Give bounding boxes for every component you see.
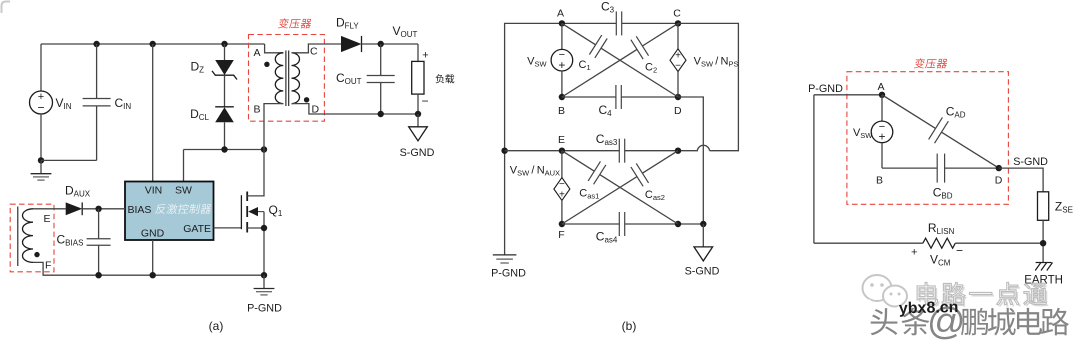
node F-row drop junction: [700, 221, 706, 227]
svg-text:ybx8.cn: ybx8.cn: [899, 299, 959, 318]
wire VSW bottom lead: [561, 71, 563, 97]
capacitor C4: [615, 85, 617, 109]
wire ZSE bottom lead: [1042, 220, 1044, 262]
svg-text:B: B: [253, 104, 260, 116]
load resistor box: [412, 61, 424, 94]
wire RLISN to earth rail: [955, 242, 1043, 244]
transistor Q1 channel segments: [246, 192, 248, 233]
watermark wechat icon: [863, 275, 908, 311]
aux core line: [17, 207, 19, 267]
zener DZ: [215, 60, 234, 75]
svg-text:−: −: [956, 244, 963, 258]
node F-row right junction: [675, 221, 681, 227]
node load bottom junction: [415, 111, 421, 117]
ground P-GND figure b: [493, 254, 517, 256]
wire VSW to B lead: [881, 143, 883, 169]
source VSW figure b: [551, 49, 573, 71]
ground EARTH symbol: [1035, 263, 1052, 271]
svg-text:+: +: [558, 58, 565, 72]
node Q1 source junction: [261, 225, 267, 231]
svg-text:F: F: [558, 229, 564, 241]
transformer T1 boundary box: [249, 35, 325, 122]
svg-text:B: B: [876, 175, 883, 187]
resistor RLISN: [923, 238, 955, 248]
ground input earth symbol: [40, 160, 42, 173]
wire C diamond top lead: [677, 23, 679, 48]
wire NAUX diamond top lead: [561, 151, 563, 178]
node A figure c: [879, 92, 885, 98]
wire DZ top lead: [224, 44, 226, 60]
capacitor C3: [615, 11, 617, 35]
watermark dianlu-yidiantong text: [917, 282, 1048, 307]
capacitor CIN: [96, 44, 98, 99]
wire left rail figure b: [505, 23, 562, 254]
winding auxiliary: [22, 209, 33, 263]
svg-text:S-GND: S-GND: [685, 266, 720, 278]
watermark toutiao text (tou-tiao at pengcheng-dianlu): [871, 301, 1069, 342]
svg-text:S-GND: S-GND: [400, 147, 435, 159]
core lines: [285, 51, 287, 107]
svg-text:P-GND: P-GND: [247, 303, 282, 315]
node D: [675, 94, 681, 100]
svg-text:D: D: [312, 104, 320, 116]
wire SW row: [184, 149, 265, 151]
wire VIN-pin rail: [152, 44, 154, 182]
svg-text:+: +: [422, 50, 428, 62]
polarity dot secondary: [304, 97, 309, 102]
wire S-GND lead: [417, 114, 419, 127]
svg-text:−: −: [421, 94, 428, 108]
label flyback controller (fan-ji-kong-zhi-qi): [155, 204, 212, 214]
svg-text:F: F: [45, 260, 51, 272]
transformer model boundary box: [847, 72, 1009, 205]
svg-text:−: −: [37, 100, 44, 114]
node CBIAS bottom junction: [95, 272, 101, 278]
wire P-GND to A: [814, 94, 882, 96]
svg-text:−: −: [675, 61, 681, 72]
wire Q1 drain lead: [247, 150, 264, 196]
wire NAUX to F lead: [561, 201, 563, 225]
capacitor Cas2 on diagonal F-ER: [562, 177, 637, 224]
node F: [559, 221, 565, 227]
label load (fu-zai): [436, 74, 455, 83]
svg-text:E: E: [44, 213, 51, 225]
svg-text:C: C: [673, 7, 681, 19]
wire GATE to Q1: [214, 227, 242, 229]
node COUT bottom junction: [378, 111, 384, 117]
node DCL-SW junction: [221, 146, 227, 152]
wire VSW top lead figure c: [881, 95, 883, 121]
capacitor C1 on diagonal A-D: [562, 23, 596, 44]
wire VIN source bottom lead: [40, 114, 42, 160]
svg-text:+: +: [559, 189, 565, 200]
wire SW pin rail: [183, 150, 185, 182]
node GND rail junction: [150, 272, 156, 278]
transistor Q1 gate bar: [240, 195, 242, 229]
wire E row hop crossing: [697, 145, 710, 150]
svg-text:B: B: [558, 105, 565, 117]
svg-text:E: E: [558, 134, 565, 146]
diode DCL: [215, 106, 234, 108]
diode DFLY: [341, 36, 362, 52]
svg-text:GND: GND: [141, 228, 165, 240]
impedance ZSE box: [1038, 192, 1049, 221]
wire DAUX to BIAS: [82, 208, 125, 210]
transistor Q1 body arrow: [250, 211, 264, 213]
wire E row: [505, 150, 620, 152]
wire C to right rail: [678, 23, 738, 150]
wire E row to hop: [678, 150, 697, 152]
svg-text:GATE: GATE: [183, 223, 211, 235]
wire aux E stub: [33, 208, 66, 210]
wire F row: [562, 223, 619, 225]
capacitor COUT: [380, 44, 382, 76]
wire GND pin rail: [152, 240, 154, 275]
wire secondary C stub: [292, 44, 342, 53]
node E: [559, 148, 565, 154]
wire B-D row figure c: [882, 167, 937, 169]
svg-text:A: A: [253, 47, 260, 59]
polarity dot primary: [264, 62, 269, 67]
wire aux F stub: [33, 262, 264, 275]
capacitor Cas4: [618, 212, 620, 236]
wire VIN-CIN bottom: [41, 159, 97, 161]
dependent source VSW/NPS: [670, 49, 686, 72]
svg-text:SW: SW: [175, 185, 192, 197]
capacitor Cas1 on diagonal E-FR: [562, 151, 594, 171]
node VIN bottom junction: [38, 157, 44, 163]
node A: [559, 20, 565, 26]
wire Q1 source lead: [247, 228, 264, 275]
decorative corner fragment: [2, 2, 11, 14]
node P-GND junction: [261, 272, 267, 278]
winding secondary: [292, 53, 300, 104]
svg-text:A: A: [877, 81, 884, 93]
dependent source VSW/NAUX: [554, 178, 570, 201]
IC U1 flyback controller box: [125, 182, 214, 241]
wire DZ-DCL lead: [224, 75, 226, 107]
svg-text:P-GND: P-GND: [491, 268, 526, 280]
node E-row right junction: [675, 148, 681, 154]
wire R-LISN row: [814, 242, 923, 244]
wire VIN source top lead: [40, 44, 42, 91]
wire D to drop rail: [678, 97, 703, 224]
svg-text:D: D: [995, 175, 1003, 187]
svg-text:(b): (b): [622, 319, 637, 333]
node VIN-rail junction: [150, 41, 156, 47]
wire diamond to D lead: [677, 72, 679, 97]
ground P-GND symbol: [263, 275, 265, 288]
node VOUT junction: [378, 41, 384, 47]
node primary-B junction: [261, 146, 267, 152]
capacitor Cas3: [618, 139, 620, 163]
svg-text:+: +: [878, 130, 885, 144]
node CBIAS top junction: [95, 206, 101, 212]
winding primary: [275, 53, 283, 104]
source VSW figure c: [871, 121, 893, 143]
svg-text:A: A: [557, 7, 564, 19]
wire Q1 body tie: [263, 212, 265, 228]
wire D to ZSE: [999, 168, 1043, 192]
wire A-C top row: [562, 22, 616, 24]
wire output bottom rail: [381, 113, 418, 115]
source VIN: [30, 91, 53, 114]
wire DFLY to VOUT: [362, 43, 419, 45]
wire load top lead: [417, 44, 419, 61]
svg-text:(a): (a): [209, 319, 224, 333]
wire load bottom lead: [417, 94, 419, 114]
wire secondary D stub: [292, 104, 381, 114]
capacitor CBIAS: [98, 209, 100, 239]
ground S-GND triangle: [417, 126, 419, 127]
svg-text:BIAS: BIAS: [128, 204, 152, 216]
svg-text:C: C: [310, 46, 318, 58]
node B: [559, 94, 565, 100]
label transformer (bian-ya-qi): [278, 18, 312, 28]
wire primary B stub: [264, 104, 283, 150]
wire top rail figure a: [41, 43, 265, 45]
wire B-D row: [562, 96, 616, 98]
svg-text:P-GND: P-GND: [808, 83, 843, 95]
label transformer figure c (bian-ya-qi): [914, 58, 948, 68]
ground S-GND figure b: [702, 246, 704, 247]
wire primary A stub: [265, 44, 284, 53]
wire S-GND lead figure b: [702, 224, 704, 247]
node VIN-CIN junction: [93, 41, 99, 47]
wire DCL bottom lead: [224, 122, 226, 149]
node D figure c: [996, 165, 1002, 171]
capacitor CAD on diagonal A-D: [882, 95, 936, 129]
svg-text:VIN: VIN: [145, 185, 163, 197]
svg-text:S-GND: S-GND: [1013, 156, 1048, 168]
node earth rail junction: [1040, 240, 1046, 246]
capacitor C2 on diagonal B-C: [562, 49, 637, 97]
svg-text:D: D: [674, 105, 682, 117]
node C: [675, 20, 681, 26]
capacitor CBD: [936, 154, 938, 183]
diode DAUX: [66, 202, 83, 215]
wire left rail figure c: [813, 95, 815, 243]
node DZ-rail junction: [221, 41, 227, 47]
wire VSW top lead: [561, 23, 563, 49]
polarity dot auxiliary: [34, 252, 39, 257]
node left rail E-row junction: [501, 148, 507, 154]
transformer aux boundary box: [10, 204, 54, 272]
svg-text:+: +: [911, 247, 917, 259]
